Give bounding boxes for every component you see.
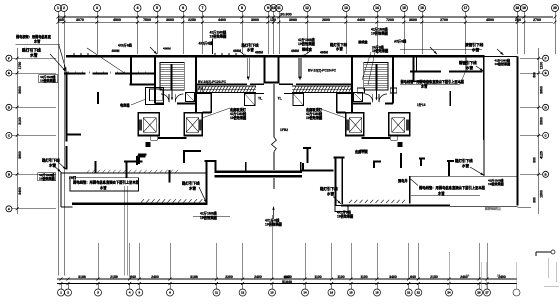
svg-text:18: 18 <box>375 291 379 295</box>
svg-text:20: 20 <box>553 6 557 10</box>
svg-text:42斤1M8线: 42斤1M8线 <box>210 30 227 35</box>
svg-text:弱电线管：用弱电信息直接由下层引上至本层: 弱电线管：用弱电信息直接由下层引上至本层 <box>419 185 486 190</box>
left dimension line <box>16 48 18 214</box>
stair up-arrow right <box>376 91 378 100</box>
svg-text:19倍效果图: 19倍效果图 <box>298 41 316 46</box>
svg-text:22: 22 <box>417 291 421 295</box>
svg-text:19倍效果图: 19倍效果图 <box>39 176 55 181</box>
svg-text:26: 26 <box>477 291 481 295</box>
svg-text:4400: 4400 <box>357 18 365 22</box>
left corridor side wall <box>130 74 132 85</box>
wall: bottom-left exterior <box>72 203 208 205</box>
svg-text:486M: 486M <box>291 49 299 53</box>
svg-text:A5斤8线: A5斤8线 <box>394 39 407 44</box>
svg-text:486M: 486M <box>320 51 328 55</box>
svg-text:3600: 3600 <box>166 18 174 22</box>
svg-text:E: E <box>545 71 547 75</box>
svg-text:4X1斤8线: 4X1斤8线 <box>337 210 352 215</box>
lobby upper side wall <box>210 94 212 113</box>
canopy line above right wing <box>400 49 482 51</box>
svg-text:3168: 3168 <box>78 275 86 279</box>
elevator lobby bottom wall <box>362 137 391 139</box>
riser pipes left of notch <box>246 58 248 78</box>
svg-text:2159: 2159 <box>110 275 118 279</box>
bottom dimension band <box>57 278 517 280</box>
extension line past right corner <box>518 207 532 209</box>
svg-text:21: 21 <box>407 291 411 295</box>
svg-text:2600: 2600 <box>322 18 330 22</box>
extension lines from partition x126 <box>123 186 125 276</box>
stub below bottom wall <box>335 206 348 212</box>
svg-text:2700: 2700 <box>533 18 541 22</box>
svg-text:接管引下线: 接管引下线 <box>464 42 484 47</box>
svg-text:F: F <box>545 56 547 60</box>
hatch ticks on terrace line <box>87 170 90 173</box>
svg-text:42斤1M8线: 42斤1M8线 <box>306 111 323 116</box>
svg-text:3400: 3400 <box>18 187 22 195</box>
svg-text:2700: 2700 <box>440 18 448 22</box>
stair handrail <box>375 64 377 90</box>
svg-text:12: 12 <box>241 291 245 295</box>
small box right of right stair bottom <box>390 88 396 93</box>
svg-text:F: F <box>8 56 10 60</box>
center partition line with break symbol <box>273 84 275 137</box>
svg-text:强电井: 强电井 <box>398 178 408 183</box>
svg-text:路灯引下线: 路灯引下线 <box>330 42 348 47</box>
svg-text:42斤1M8线: 42斤1M8线 <box>298 37 315 42</box>
annotation left-bottom boxed <box>38 173 56 181</box>
stair door arcs <box>161 94 169 102</box>
terrace line lower-left rooms <box>61 172 206 174</box>
svg-text:2400: 2400 <box>254 275 262 279</box>
small box left of right stair bottom <box>357 88 364 93</box>
top axis grid circles <box>55 5 62 12</box>
svg-text:19倍效果图: 19倍效果图 <box>200 215 218 220</box>
svg-text:13: 13 <box>270 291 274 295</box>
svg-text:水管: 水管 <box>471 47 480 52</box>
svg-text:27: 27 <box>485 291 489 295</box>
svg-text:弱电线管：用弱电信息直接由下层引上至本层: 弱电线管：用弱电信息直接由下层引上至本层 <box>73 180 140 185</box>
stair handrail <box>170 64 172 90</box>
svg-text:19倍效果图: 19倍效果图 <box>40 78 56 83</box>
svg-text:4125: 4125 <box>539 151 543 159</box>
cable tray right corridor <box>292 85 352 87</box>
wall: left exterior <box>66 72 68 142</box>
svg-text:路灯引下线: 路灯引下线 <box>455 158 473 163</box>
lobby upper side wall <box>336 94 338 113</box>
svg-text:3070: 3070 <box>76 18 84 22</box>
svg-text:15: 15 <box>402 6 406 10</box>
svg-text:1: 1 <box>57 6 59 10</box>
wall stub in left big room <box>97 92 99 104</box>
svg-text:3080: 3080 <box>289 18 297 22</box>
ticks on second wall left <box>67 72 69 74</box>
svg-text:17: 17 <box>464 6 468 10</box>
svg-text:15: 15 <box>349 291 353 295</box>
stair shaft <box>364 63 388 91</box>
svg-text:14: 14 <box>303 291 307 295</box>
svg-text:42斤1M8线: 42斤1M8线 <box>230 111 247 116</box>
svg-text:640: 640 <box>130 275 136 279</box>
svg-text:4X6斤8线: 4X6斤8线 <box>199 41 214 46</box>
corridor walls <box>196 83 247 85</box>
svg-text:16: 16 <box>420 6 424 10</box>
top-center notch <box>263 56 265 83</box>
svg-text:8: 8 <box>241 6 243 10</box>
svg-text:水管: 水管 <box>326 191 335 196</box>
left stair core walls <box>154 57 156 104</box>
faint survey marks bottom right <box>448 253 450 289</box>
svg-text:2400: 2400 <box>151 275 159 279</box>
svg-text:24: 24 <box>447 291 451 295</box>
svg-text:640: 640 <box>410 275 416 279</box>
svg-text:486M: 486M <box>233 49 241 53</box>
left axis circles <box>6 55 12 61</box>
svg-text:16: 16 <box>330 291 334 295</box>
svg-text:16: 16 <box>497 274 501 278</box>
svg-text:水管: 水管 <box>99 185 107 190</box>
svg-text:4: 4 <box>137 6 139 10</box>
svg-text:隔音引下线: 隔音引下线 <box>459 60 477 65</box>
svg-text:路灯引下线: 路灯引下线 <box>182 181 200 186</box>
svg-text:电表箱: 电表箱 <box>120 103 130 108</box>
big text box left <box>70 178 139 191</box>
meter box next to stair <box>354 93 363 102</box>
svg-text:11: 11 <box>215 291 218 295</box>
svg-text:3: 3 <box>96 6 98 10</box>
svg-text:3000: 3000 <box>251 18 259 22</box>
svg-text:19倍效果图: 19倍效果图 <box>306 115 322 120</box>
leader into left elevator shaft <box>202 108 230 118</box>
svg-text:走廊吸顶灯: 走廊吸顶灯 <box>229 107 247 112</box>
stair up-arrow left <box>171 91 173 100</box>
wall: second horizontal left <box>64 73 86 75</box>
svg-text:麻将电线引上: 麻将电线引上 <box>484 207 502 211</box>
stair treads <box>364 64 388 66</box>
svg-text:7: 7 <box>202 6 204 10</box>
svg-text:9: 9 <box>267 6 269 10</box>
svg-text:1750: 1750 <box>18 62 22 70</box>
svg-text:水管: 水管 <box>335 46 343 51</box>
svg-text:19倍效果图: 19倍效果图 <box>337 214 353 219</box>
svg-text:4X1斤8线: 4X1斤8线 <box>265 218 280 223</box>
stub at recess wall left end <box>302 163 304 171</box>
svg-text:19倍效果图: 19倍效果图 <box>495 61 511 66</box>
svg-text:486M: 486M <box>112 49 120 53</box>
right elevator shafts <box>389 113 410 136</box>
recess corner left: vertical wall <box>205 160 207 205</box>
stair shaft <box>160 63 184 91</box>
svg-text:路灯引下线: 路灯引下线 <box>42 158 60 163</box>
svg-text:路灯引下线: 路灯引下线 <box>320 186 338 191</box>
svg-text:14: 14 <box>466 274 470 278</box>
svg-text:13: 13 <box>344 6 348 10</box>
TD box <box>391 136 398 140</box>
svg-text:水管: 水管 <box>33 39 41 44</box>
svg-text:19倍效果图: 19倍效果图 <box>230 115 246 120</box>
svg-text:7500: 7500 <box>143 18 151 22</box>
faint marks far bottom right <box>547 258 549 278</box>
riser pipes right of notch <box>298 58 300 78</box>
svg-text:BV-16(2)-PC20-FC: BV-16(2)-PC20-FC <box>198 80 227 84</box>
svg-text:3600: 3600 <box>18 86 22 94</box>
svg-text:1100: 1100 <box>360 275 367 279</box>
band riser right <box>300 162 302 171</box>
top dimension band <box>58 16 553 18</box>
cable tray left corridor <box>196 85 256 87</box>
svg-text:14: 14 <box>375 6 379 10</box>
svg-text:800: 800 <box>533 157 537 163</box>
TD box <box>151 136 158 140</box>
leader arrows <box>59 46 66 71</box>
svg-text:路灯引下线: 路灯引下线 <box>22 48 41 53</box>
svg-text:BV-10(2)-PC20-FC: BV-10(2)-PC20-FC <box>308 69 337 73</box>
svg-text:51840: 51840 <box>282 280 292 284</box>
svg-text:42斤1M8线: 42斤1M8线 <box>371 27 388 32</box>
svg-text:1100: 1100 <box>314 275 321 279</box>
partition stubs left unit <box>67 133 81 135</box>
elevator car symbols with X <box>143 118 156 132</box>
counterweights <box>139 120 142 131</box>
svg-text:3300: 3300 <box>539 117 543 125</box>
band riser left <box>245 162 247 171</box>
section mark bottom right <box>536 251 551 253</box>
right dimension line <box>538 48 540 214</box>
svg-text:260: 260 <box>515 18 521 22</box>
bottom axis stems and extension lines <box>60 284 62 290</box>
left elevator shafts <box>138 113 159 136</box>
hatch ticks on bottom-left wall <box>141 199 144 202</box>
svg-text:42斤1M8线: 42斤1M8线 <box>200 211 217 216</box>
svg-text:2150: 2150 <box>430 275 438 279</box>
svg-text:19倍效果图: 19倍效果图 <box>488 181 504 186</box>
svg-text:水管: 水管 <box>461 163 470 168</box>
right axis circles <box>543 55 549 61</box>
svg-text:弱电线管：用弱电信息直接由下层引上至本层: 弱电线管：用弱电信息直接由下层引上至本层 <box>401 79 465 84</box>
terrace line right wing <box>409 175 517 177</box>
duct blob below left elevator <box>146 142 151 147</box>
duct blob below right elevator <box>398 142 403 147</box>
svg-text:2200: 2200 <box>225 275 233 279</box>
svg-text:3400: 3400 <box>389 275 397 279</box>
svg-text:3600: 3600 <box>18 151 22 159</box>
partition stubs middle <box>303 147 311 149</box>
stair door arcs <box>379 94 387 102</box>
svg-text:1斤13: 1斤13 <box>417 102 426 107</box>
svg-text:1100: 1100 <box>337 275 344 279</box>
leader into right elevator shaft <box>318 108 346 118</box>
wall: right main corner vertical <box>483 57 485 140</box>
svg-text:1100: 1100 <box>539 62 543 69</box>
wall stub right wing room <box>449 91 451 106</box>
svg-text:4400: 4400 <box>218 18 226 22</box>
svg-text:路灯引下线: 路灯引下线 <box>242 43 260 48</box>
wall: bottom-right exterior <box>341 204 450 206</box>
leader diagonals into right stair <box>362 52 371 80</box>
svg-text:3100: 3100 <box>18 117 22 125</box>
svg-text:4500: 4500 <box>486 18 494 22</box>
svg-text:19倍效果图: 19倍效果图 <box>371 31 389 36</box>
room divider top strip left <box>130 56 132 73</box>
elevator lobby bottom wall <box>158 137 187 139</box>
bottom axis circles <box>58 289 65 296</box>
closet divider right wing <box>415 58 417 72</box>
svg-text:3600: 3600 <box>409 18 417 22</box>
svg-text:30.900: 30.900 <box>280 12 292 16</box>
svg-text:水管: 水管 <box>437 191 445 196</box>
svg-text:19倍效果图: 19倍效果图 <box>265 222 283 227</box>
counterweights <box>406 120 409 131</box>
small box right of left stair bottom <box>196 88 203 93</box>
svg-text:3168: 3168 <box>190 275 198 279</box>
svg-text:600: 600 <box>533 72 537 78</box>
small divider right second wall <box>465 58 467 72</box>
svg-text:19倍效果图: 19倍效果图 <box>372 48 388 53</box>
svg-text:6: 6 <box>182 6 184 10</box>
top terrace thin line to right <box>485 55 518 57</box>
svg-text:接线盒: 接线盒 <box>301 47 313 52</box>
svg-text:水管: 水管 <box>246 47 254 52</box>
svg-text:2250: 2250 <box>188 18 196 22</box>
svg-text:486M: 486M <box>255 51 263 55</box>
svg-text:12: 12 <box>305 6 309 10</box>
left balcony outline <box>60 172 62 207</box>
svg-text:10: 10 <box>272 6 276 10</box>
svg-text:19: 19 <box>522 6 526 10</box>
distribution box left of center <box>245 94 256 106</box>
svg-text:3600: 3600 <box>539 86 543 94</box>
svg-text:水管: 水管 <box>29 53 38 58</box>
svg-text:走廊吸顶灯: 走廊吸顶灯 <box>305 107 323 112</box>
svg-text:接线盒: 接线盒 <box>358 39 368 44</box>
svg-text:7200: 7200 <box>386 18 394 22</box>
top axis grid lines <box>57 12 59 276</box>
svg-text:4X6斤8线: 4X6斤8线 <box>118 43 133 48</box>
wall: top exterior <box>66 55 485 57</box>
svg-text:5: 5 <box>156 6 158 10</box>
wall: right terrace edge <box>517 56 519 177</box>
svg-text:18: 18 <box>516 6 520 10</box>
hatch ticks on bottom-right wall <box>349 200 352 203</box>
distribution box right of center <box>293 94 304 106</box>
svg-text:5280: 5280 <box>284 275 291 279</box>
recess wall to right wing <box>301 170 334 172</box>
svg-text:弱电桥架：用弱电信息直: 弱电桥架：用弱电信息直 <box>16 34 52 39</box>
annotation left boxed <box>39 75 58 83</box>
svg-text:E: E <box>8 71 10 75</box>
svg-text:800: 800 <box>533 197 537 203</box>
svg-text:300: 300 <box>58 18 64 22</box>
recess corner right: double vertical wall <box>334 157 336 206</box>
svg-text:2: 2 <box>63 6 65 10</box>
partition stubs right unit <box>360 150 368 152</box>
svg-text:水管: 水管 <box>188 185 197 190</box>
center recess wall band <box>215 170 303 173</box>
meter box next to stair <box>186 93 195 102</box>
right stair core walls <box>392 57 394 104</box>
elevator car symbols with X <box>392 118 405 132</box>
stair treads <box>160 64 184 66</box>
corridor wall right of right stair <box>413 58 415 83</box>
svg-text:水管: 水管 <box>48 162 57 167</box>
svg-text:4500: 4500 <box>113 18 121 22</box>
svg-text:1500: 1500 <box>539 190 543 198</box>
meter cabinet left of left stair <box>146 88 164 105</box>
svg-text:120: 120 <box>270 18 276 22</box>
svg-text:11: 11 <box>277 6 281 10</box>
svg-text:走廊平面: 走廊平面 <box>354 149 369 154</box>
window ticks on top wall <box>73 53 75 56</box>
wall: second horizontal right <box>410 71 441 73</box>
svg-text:1FB2: 1FB2 <box>280 128 288 132</box>
leader diagonal into left corridor <box>87 48 125 73</box>
svg-text:19倍效果图: 19倍效果图 <box>210 34 228 39</box>
svg-text:486M: 486M <box>163 47 171 51</box>
recess step <box>205 160 217 162</box>
